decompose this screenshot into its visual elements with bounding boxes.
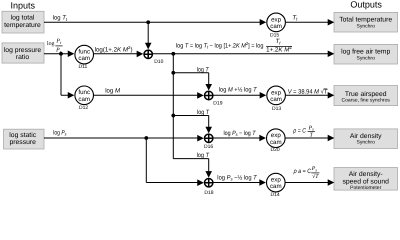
svg-text:log Ps − log T: log Ps − log T	[224, 130, 257, 137]
svg-text:log T: log T	[197, 66, 210, 73]
svg-text:D14: D14	[271, 192, 280, 197]
svg-text:D19: D19	[213, 101, 222, 107]
svg-text:Synchro: Synchro	[357, 23, 376, 29]
svg-text:D20: D20	[271, 147, 280, 153]
svg-text:Synchro: Synchro	[357, 55, 376, 61]
svg-text:Synchro: Synchro	[357, 140, 376, 146]
svg-text:cam: cam	[270, 183, 282, 190]
svg-text:Outputs: Outputs	[350, 0, 382, 10]
svg-text:log Tt: log Tt	[53, 15, 68, 22]
svg-text:log total: log total	[11, 15, 35, 22]
svg-text:Pt: Pt	[55, 39, 62, 45]
svg-text:cam: cam	[78, 55, 90, 62]
svg-text:Inputs: Inputs	[11, 1, 36, 11]
svg-text:log pressure: log pressure	[4, 47, 42, 54]
svg-text:log T = log Tt − log [1+.2K M2: log T = log Tt − log [1+.2K M2] = log	[176, 41, 264, 50]
svg-text:D13: D13	[272, 106, 281, 112]
svg-text:log M +½ log T: log M +½ log T	[219, 86, 258, 93]
svg-text:D12: D12	[79, 105, 88, 111]
svg-text:log Ps −½ log T: log Ps −½ log T	[217, 174, 258, 181]
svg-text:ρ = C: ρ = C	[292, 127, 306, 134]
svg-text:D16: D16	[204, 144, 213, 150]
svg-text:pressure: pressure	[9, 139, 36, 146]
svg-text:temperature: temperature	[4, 22, 41, 29]
svg-text:log(1+.2K M2): log(1+.2K M2)	[95, 45, 133, 53]
svg-text:log T: log T	[197, 152, 210, 159]
svg-text:√T: √T	[312, 173, 319, 180]
svg-text:V = 38.94 M √T: V = 38.94 M √T	[288, 89, 329, 96]
svg-text:log T: log T	[197, 109, 210, 116]
svg-text:ratio: ratio	[16, 54, 29, 61]
svg-text:Ps: Ps	[308, 125, 315, 131]
svg-text:log free air temp: log free air temp	[341, 48, 390, 55]
svg-text:log: log	[47, 40, 55, 47]
svg-text:ρ a = C: ρ a = C	[293, 168, 312, 175]
svg-text:Air density-: Air density-	[349, 171, 383, 178]
svg-text:1+.2K M2: 1+.2K M2	[266, 45, 292, 53]
svg-text:D18: D18	[204, 190, 213, 196]
svg-text:cam: cam	[78, 96, 90, 103]
svg-text:cam: cam	[270, 23, 282, 30]
svg-text:Potentiometer: Potentiometer	[350, 185, 381, 191]
svg-text:Ps: Ps	[55, 48, 62, 54]
svg-text:cam: cam	[270, 96, 282, 103]
svg-text:cam: cam	[270, 139, 282, 146]
svg-text:log static: log static	[9, 132, 36, 139]
svg-text:D10: D10	[154, 59, 163, 65]
svg-text:D11: D11	[79, 64, 88, 70]
svg-text:log M: log M	[105, 88, 121, 95]
svg-text:Ps: Ps	[311, 166, 318, 172]
svg-text:Coarse, fine synchros: Coarse, fine synchros	[342, 97, 391, 103]
